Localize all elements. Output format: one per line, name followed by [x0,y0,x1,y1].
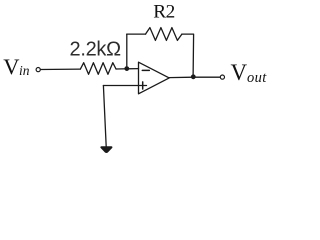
svg-text:V: V [3,54,19,79]
svg-text:in: in [19,63,30,78]
svg-text:2.2kΩ: 2.2kΩ [70,38,122,60]
svg-text:V: V [231,60,248,85]
svg-text:R2: R2 [153,1,175,22]
svg-text:out: out [247,70,267,86]
